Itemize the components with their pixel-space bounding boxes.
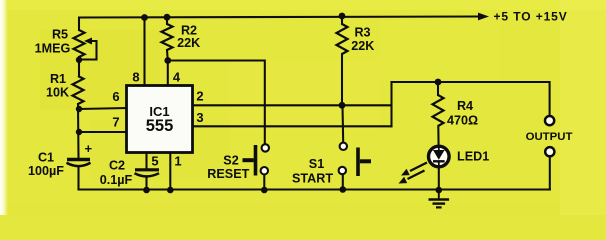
svg-text:LED1: LED1 xyxy=(457,150,489,164)
svg-text:RESET: RESET xyxy=(207,167,249,181)
svg-text:3: 3 xyxy=(196,110,203,125)
svg-text:22K: 22K xyxy=(177,36,200,50)
svg-text:C2: C2 xyxy=(109,159,125,173)
svg-text:R4: R4 xyxy=(457,99,473,113)
svg-text:+: + xyxy=(85,141,93,156)
svg-text:S1: S1 xyxy=(309,157,324,171)
svg-text:4: 4 xyxy=(173,70,181,85)
svg-text:S2: S2 xyxy=(223,154,238,168)
svg-text:OUTPUT: OUTPUT xyxy=(526,131,573,143)
svg-text:+5 TO +15V: +5 TO +15V xyxy=(494,10,568,24)
svg-text:5: 5 xyxy=(151,154,158,169)
svg-text:C1: C1 xyxy=(38,151,54,165)
svg-text:100µF: 100µF xyxy=(28,164,64,178)
svg-text:8: 8 xyxy=(132,70,139,85)
svg-text:0.1µF: 0.1µF xyxy=(100,173,133,187)
svg-text:1MEG: 1MEG xyxy=(35,42,71,56)
svg-text:R1: R1 xyxy=(50,72,66,86)
svg-text:6: 6 xyxy=(112,89,119,104)
svg-text:7: 7 xyxy=(112,115,119,130)
svg-text:1: 1 xyxy=(174,154,181,169)
svg-text:START: START xyxy=(292,172,333,186)
svg-text:2: 2 xyxy=(196,89,203,104)
svg-text:470Ω: 470Ω xyxy=(447,114,478,128)
svg-text:R3: R3 xyxy=(354,26,370,40)
svg-text:555: 555 xyxy=(146,117,174,135)
svg-text:22K: 22K xyxy=(351,39,374,53)
svg-text:10K: 10K xyxy=(46,86,69,100)
svg-text:R5: R5 xyxy=(52,28,68,42)
